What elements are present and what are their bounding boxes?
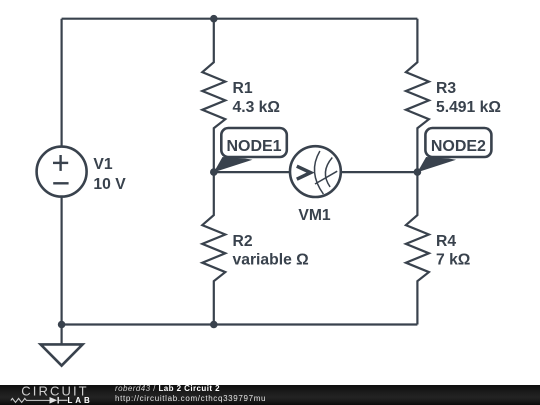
- svg-text:NODE1: NODE1: [226, 138, 281, 155]
- svg-text:R3: R3: [436, 80, 456, 97]
- svg-text:5.491 kΩ: 5.491 kΩ: [436, 99, 501, 116]
- svg-text:R4: R4: [436, 233, 456, 250]
- svg-text:R1: R1: [233, 80, 253, 97]
- svg-text:R2: R2: [233, 233, 253, 250]
- svg-text:variable Ω: variable Ω: [233, 252, 309, 269]
- svg-text:VM1: VM1: [298, 207, 331, 224]
- svg-text:4.3 kΩ: 4.3 kΩ: [233, 99, 280, 116]
- svg-text:10 V: 10 V: [93, 176, 126, 193]
- svg-text:V1: V1: [93, 156, 112, 173]
- svg-text:7 kΩ: 7 kΩ: [436, 252, 470, 269]
- svg-text:LAB: LAB: [68, 396, 93, 405]
- svg-text:NODE2: NODE2: [431, 138, 486, 155]
